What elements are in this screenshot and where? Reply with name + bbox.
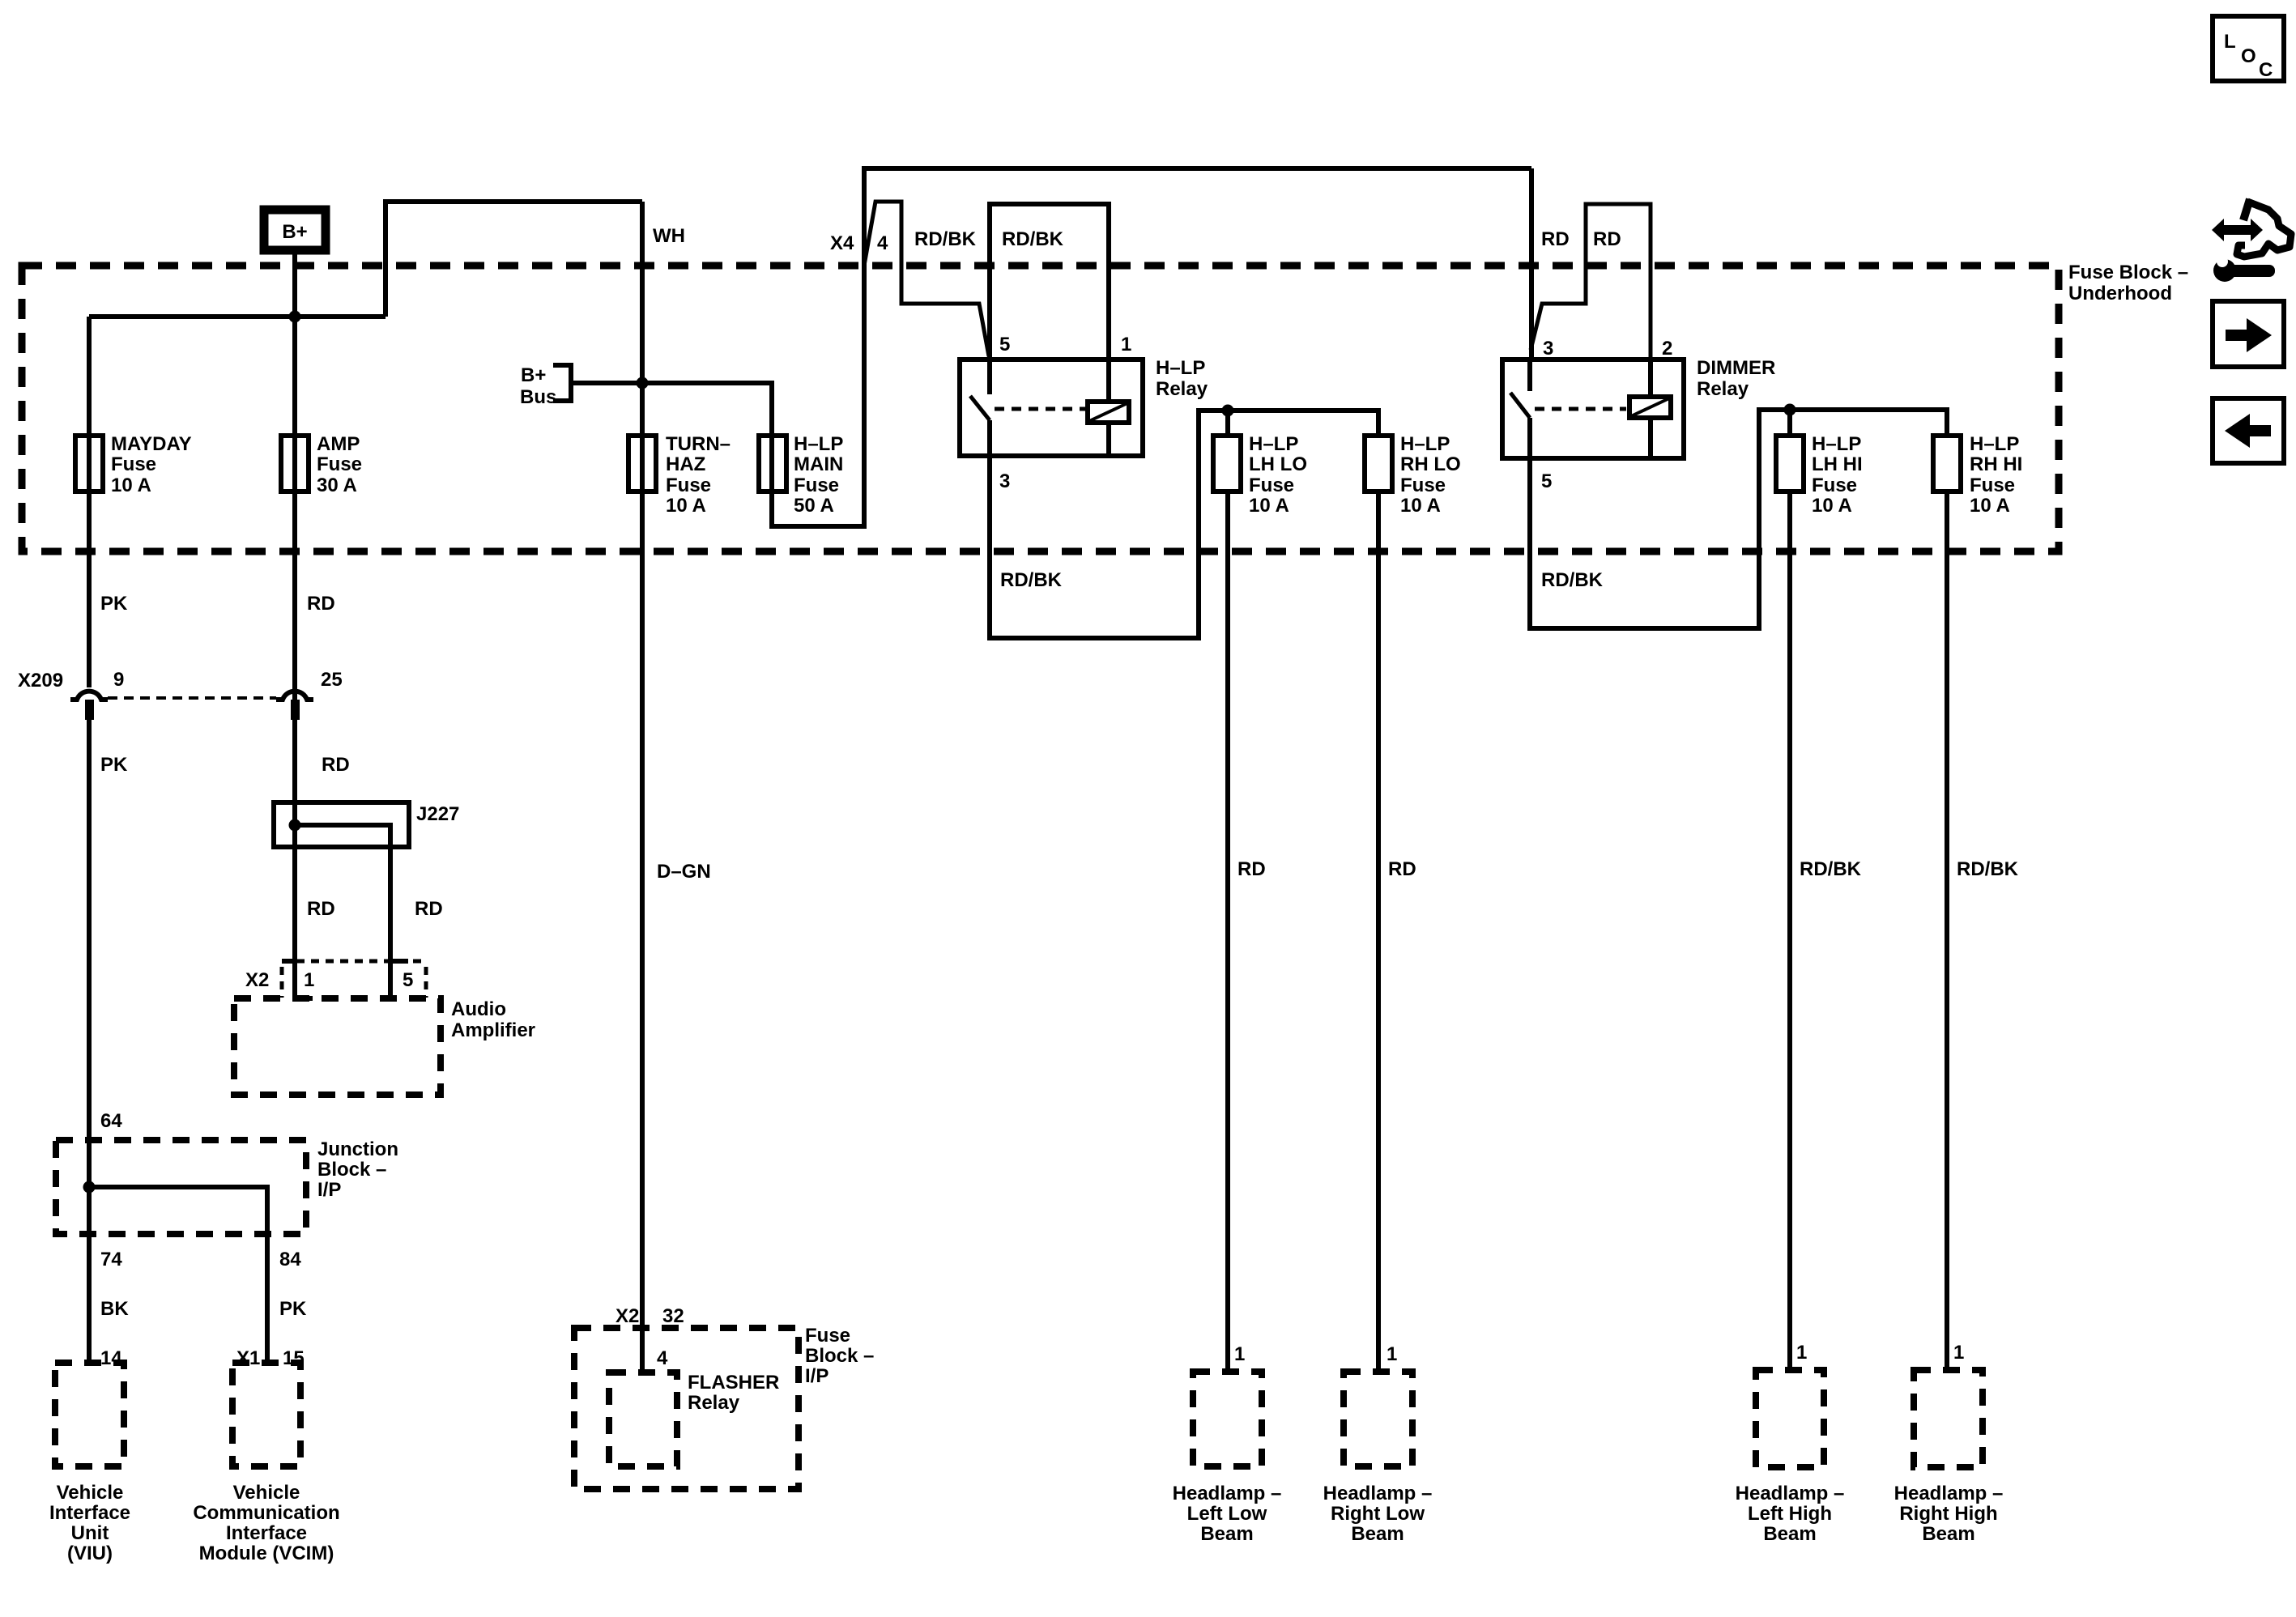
wire top rail drop to dimmer pin 3 — [1529, 168, 1534, 360]
svg-text:HAZ: HAZ — [666, 453, 705, 475]
svg-text:1: 1 — [1387, 1343, 1397, 1365]
svg-text:RD: RD — [307, 593, 335, 615]
wire relay H-LP pin3 to low beam fuses — [990, 411, 1378, 638]
svg-text:1: 1 — [1953, 1342, 1964, 1364]
svg-text:Fuse: Fuse — [666, 474, 711, 496]
relay DIMMER pin 3 stub — [1527, 360, 1532, 391]
wire LH HI fuse to headlamp — [1787, 491, 1792, 1370]
connector X2 pin 5 tick — [390, 959, 408, 964]
wire junction block branch — [89, 1187, 267, 1363]
fuse block I/P dashed box — [574, 1328, 799, 1489]
wire junction to MAYDAY branch — [89, 314, 386, 319]
svg-text:10 A: 10 A — [1400, 495, 1441, 517]
wire junction riser to top rail — [386, 202, 642, 317]
svg-text:Unit: Unit — [71, 1522, 109, 1544]
svg-text:1: 1 — [1234, 1343, 1245, 1365]
svg-text:Relay: Relay — [1156, 378, 1208, 400]
svg-text:Fuse: Fuse — [794, 474, 839, 496]
relay DIMMER actuator dashed link — [1535, 407, 1626, 411]
svg-text:J227: J227 — [416, 803, 459, 825]
svg-text:2: 2 — [1662, 338, 1672, 360]
svg-text:LH HI: LH HI — [1812, 453, 1863, 475]
relay H-LP pin 5 stub — [987, 360, 992, 394]
svg-text:Underhood: Underhood — [2068, 283, 2172, 304]
wire PK to junction block — [87, 720, 92, 1363]
wire RD to J227 — [292, 720, 297, 998]
svg-text:5: 5 — [999, 334, 1010, 355]
label headlamp left low beam — [1173, 1483, 1282, 1545]
svg-text:RD/BK: RD/BK — [1800, 858, 1862, 880]
svg-text:I/P: I/P — [805, 1365, 829, 1387]
svg-text:O: O — [2241, 45, 2256, 67]
svg-text:1: 1 — [1121, 334, 1131, 355]
svg-text:Interface: Interface — [49, 1502, 130, 1524]
node dot at B+ Bus tap — [637, 377, 649, 389]
svg-text:74: 74 — [100, 1249, 122, 1270]
svg-text:RD: RD — [415, 898, 443, 920]
svg-text:Right Low: Right Low — [1331, 1503, 1425, 1525]
svg-text:Communication: Communication — [193, 1502, 339, 1524]
svg-text:RD/BK: RD/BK — [914, 228, 977, 250]
svg-text:C: C — [2259, 59, 2273, 81]
svg-text:Vehicle: Vehicle — [57, 1482, 124, 1504]
wire J227 branch — [295, 825, 390, 998]
svg-text:RD: RD — [1593, 228, 1621, 250]
svg-text:Beam: Beam — [1922, 1523, 1974, 1545]
svg-text:Headlamp –: Headlamp – — [1736, 1483, 1845, 1504]
svg-text:FLASHER: FLASHER — [688, 1372, 779, 1394]
svg-text:1: 1 — [304, 969, 314, 991]
svg-text:5: 5 — [403, 969, 413, 991]
svg-text:30 A: 30 A — [317, 474, 357, 496]
svg-text:H–LP: H–LP — [1812, 433, 1861, 455]
vehicle interface unit dashed box — [55, 1363, 124, 1466]
wire H-LP MAIN fuse to top rail — [642, 168, 1531, 526]
splice pack J227 box — [274, 802, 409, 847]
wire H-LP relay coil loop — [990, 204, 1109, 360]
node dot LH LO fuse tap — [1222, 405, 1234, 417]
svg-text:Fuse: Fuse — [1812, 474, 1857, 496]
svg-text:RD: RD — [1541, 228, 1570, 250]
svg-text:LH LO: LH LO — [1249, 453, 1307, 475]
label B+ Bus — [520, 364, 556, 408]
label junction block I/P — [317, 1138, 398, 1201]
label fuse block I/P — [805, 1325, 874, 1387]
headlamp left high beam box — [1756, 1370, 1824, 1467]
relay H-LP actuator dashed link — [995, 407, 1086, 411]
node junction below B+ — [289, 311, 301, 323]
svg-text:50 A: 50 A — [794, 495, 834, 517]
right page arrow box — [2213, 301, 2284, 367]
svg-text:H–LP: H–LP — [1156, 357, 1205, 379]
svg-text:MAIN: MAIN — [794, 453, 843, 475]
relay H-LP coil — [1088, 402, 1129, 423]
svg-text:(VIU): (VIU) — [67, 1543, 113, 1564]
svg-text:RD: RD — [1237, 858, 1266, 880]
svg-text:PK: PK — [279, 1298, 307, 1320]
svg-text:RD/BK: RD/BK — [1002, 228, 1064, 250]
wire RH HI fuse to headlamp — [1945, 491, 1949, 1370]
connector X209 arc pin 25 — [276, 691, 313, 700]
svg-text:RD: RD — [1388, 858, 1416, 880]
svg-text:B+: B+ — [521, 364, 546, 386]
wire LH HI fuse stub — [1787, 410, 1792, 436]
svg-text:Fuse: Fuse — [317, 453, 362, 475]
svg-text:10 A: 10 A — [1812, 495, 1852, 517]
wire dimmer pin5 to high beam fuses — [1530, 410, 1947, 628]
wire RH LO fuse to headlamp — [1376, 491, 1381, 1372]
fuse H-LP LH LO 10A — [1213, 433, 1307, 517]
LOC legend box — [2213, 16, 2284, 81]
connector X209 pin 25 terminal — [291, 700, 300, 720]
svg-text:I/P: I/P — [317, 1179, 341, 1201]
svg-text:RD/BK: RD/BK — [1541, 569, 1604, 591]
svg-text:Relay: Relay — [688, 1392, 740, 1414]
label FLASHER Relay — [688, 1372, 779, 1414]
svg-text:1: 1 — [1796, 1342, 1807, 1364]
svg-text:84: 84 — [279, 1249, 301, 1270]
svg-text:Fuse: Fuse — [1400, 474, 1446, 496]
relay DIMMER switch blade — [1510, 393, 1530, 418]
svg-text:Bus: Bus — [520, 386, 556, 408]
node dot junction block — [83, 1181, 96, 1194]
vehicle communication interface module dashed box — [232, 1363, 300, 1466]
battery feed B+ box — [264, 210, 326, 250]
svg-text:H–LP: H–LP — [1400, 433, 1450, 455]
svg-text:Fuse: Fuse — [805, 1325, 850, 1347]
svg-text:Junction: Junction — [317, 1138, 398, 1160]
svg-text:RD: RD — [322, 754, 350, 776]
svg-text:BK: BK — [100, 1298, 129, 1320]
svg-text:Left Low: Left Low — [1187, 1503, 1267, 1525]
svg-text:PK: PK — [100, 754, 128, 776]
wire LH LO fuse stub — [1225, 411, 1230, 436]
audio amplifier dashed box — [234, 998, 441, 1095]
svg-text:RD/BK: RD/BK — [1000, 569, 1063, 591]
fuse MAYDAY 10A — [75, 433, 192, 496]
svg-text:Interface: Interface — [226, 1522, 307, 1544]
relay DIMMER box — [1502, 360, 1684, 458]
svg-text:4: 4 — [877, 232, 888, 254]
svg-text:Fuse: Fuse — [1249, 474, 1294, 496]
svg-text:10 A: 10 A — [1970, 495, 2010, 517]
svg-text:X2: X2 — [245, 969, 269, 991]
svg-text:Beam: Beam — [1763, 1523, 1816, 1545]
svg-text:H–LP: H–LP — [1249, 433, 1298, 455]
fuse H-LP MAIN 50A — [759, 433, 843, 517]
relay H-LP switch blade — [970, 396, 990, 420]
svg-text:10 A: 10 A — [1249, 495, 1289, 517]
svg-text:Headlamp –: Headlamp – — [1894, 1483, 2004, 1504]
node B+ Bus bracket — [553, 365, 571, 401]
svg-text:Audio: Audio — [451, 998, 506, 1020]
wire WH drop — [640, 202, 645, 1374]
connector X209 pin 9 terminal — [85, 700, 94, 720]
label headlamp left high beam — [1736, 1483, 1845, 1545]
svg-text:Headlamp –: Headlamp – — [1323, 1483, 1433, 1504]
svg-text:Right High: Right High — [1899, 1503, 1997, 1525]
label vehicle interface unit — [49, 1482, 130, 1564]
svg-text:5: 5 — [1541, 470, 1552, 492]
left page arrow box — [2213, 398, 2284, 463]
svg-text:RH LO: RH LO — [1400, 453, 1461, 475]
fuse AMP 30A — [281, 433, 362, 496]
svg-text:Block –: Block – — [805, 1345, 874, 1367]
svg-text:Beam: Beam — [1351, 1523, 1404, 1545]
label H-LP Relay — [1156, 357, 1208, 400]
wire MAYDAY fuse drop — [87, 317, 92, 687]
connector X209 dashed tie — [108, 696, 276, 700]
svg-text:10 A: 10 A — [666, 495, 706, 517]
label audio amplifier — [451, 998, 535, 1041]
svg-text:10 A: 10 A — [111, 474, 151, 496]
svg-text:RH HI: RH HI — [1970, 453, 2022, 475]
relay DIMMER coil — [1629, 397, 1671, 418]
wire LH LO fuse to headlamp — [1225, 491, 1230, 1372]
svg-text:3: 3 — [1543, 338, 1553, 360]
node dot LH HI fuse tap — [1784, 404, 1796, 416]
connector X2 dotted face at amplifier — [282, 961, 426, 998]
svg-text:MAYDAY: MAYDAY — [111, 433, 192, 455]
svg-text:PK: PK — [100, 593, 128, 615]
svg-text:H–LP: H–LP — [1970, 433, 2019, 455]
wire B+ to junction — [292, 254, 297, 720]
svg-text:WH: WH — [653, 225, 685, 247]
headlamp left low beam box — [1193, 1372, 1262, 1466]
label headlamp right low beam — [1323, 1483, 1433, 1545]
svg-text:D–GN: D–GN — [657, 861, 711, 883]
svg-text:4: 4 — [657, 1347, 668, 1369]
svg-text:Left High: Left High — [1748, 1503, 1832, 1525]
svg-text:Vehicle: Vehicle — [233, 1482, 300, 1504]
connector X2 pin 1 tick — [282, 961, 313, 998]
svg-text:TURN–: TURN– — [666, 433, 731, 455]
svg-text:32: 32 — [662, 1305, 684, 1327]
connector X209 arc pin 9 — [70, 691, 108, 700]
svg-text:64: 64 — [100, 1110, 122, 1132]
svg-text:Module (VCIM): Module (VCIM) — [199, 1543, 334, 1564]
svg-text:Amplifier: Amplifier — [451, 1019, 535, 1041]
wire B+ Bus to WH wire — [571, 381, 642, 385]
underhood location icon — [2212, 199, 2291, 282]
svg-text:X209: X209 — [18, 670, 63, 691]
fuse TURN-HAZ 10A — [628, 433, 731, 517]
svg-text:RD/BK: RD/BK — [1957, 858, 2019, 880]
fuse H-LP RH HI 10A — [1933, 433, 2022, 517]
svg-text:Headlamp –: Headlamp – — [1173, 1483, 1282, 1504]
svg-text:9: 9 — [113, 669, 124, 691]
relay H-LP pin 1 leads — [1106, 360, 1111, 456]
svg-text:Block –: Block – — [317, 1159, 386, 1181]
svg-text:H–LP: H–LP — [794, 433, 843, 455]
junction block I/P dashed box — [56, 1140, 306, 1234]
svg-text:X2: X2 — [616, 1305, 639, 1327]
flasher relay dashed box — [609, 1372, 677, 1466]
fuse H-LP RH LO 10A — [1365, 433, 1461, 517]
dimmer coil loop jog — [1531, 204, 1651, 360]
relay H-LP box — [960, 360, 1143, 456]
connector X4 pin 4 jog — [864, 202, 989, 356]
svg-text:RD: RD — [307, 898, 335, 920]
svg-text:Relay: Relay — [1697, 378, 1749, 400]
svg-text:3: 3 — [999, 470, 1010, 492]
label DIMMER Relay — [1697, 357, 1775, 400]
svg-text:DIMMER: DIMMER — [1697, 357, 1775, 379]
svg-text:25: 25 — [321, 669, 343, 691]
fuse block underhood label — [2068, 262, 2188, 304]
svg-text:L: L — [2224, 31, 2236, 53]
fuse block underhood dashed box — [22, 266, 2059, 551]
headlamp right low beam box — [1344, 1372, 1412, 1466]
svg-text:Fuse Block –: Fuse Block – — [2068, 262, 2188, 283]
svg-text:AMP: AMP — [317, 433, 360, 455]
headlamp right high beam box — [1914, 1370, 1983, 1467]
svg-text:B+: B+ — [282, 221, 307, 243]
svg-text:Fuse: Fuse — [111, 453, 156, 475]
node dot inside J227 — [289, 819, 301, 832]
svg-text:Fuse: Fuse — [1970, 474, 2015, 496]
svg-text:X4: X4 — [830, 232, 854, 254]
relay DIMMER pin 2 leads — [1648, 360, 1653, 458]
label VCIM — [193, 1482, 339, 1564]
fuse H-LP LH HI 10A — [1776, 433, 1863, 517]
label headlamp right high beam — [1894, 1483, 2004, 1545]
svg-text:Beam: Beam — [1200, 1523, 1253, 1545]
